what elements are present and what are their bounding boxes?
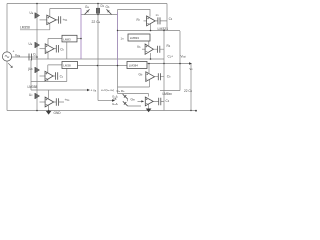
capacitor C5 bbox=[158, 46, 160, 53]
wire purple column left bbox=[80, 9, 82, 60]
diode D1 input TL bbox=[34, 13, 36, 19]
svg-text:1n: 1n bbox=[121, 37, 125, 41]
op-amp U4 mid-left lower bbox=[45, 71, 53, 81]
wire cell3 gnd drop bbox=[48, 106, 50, 111]
wire cell2b feedback bbox=[48, 65, 62, 73]
diode D2 input bbox=[34, 42, 36, 48]
svg-text:LM38: LM38 bbox=[63, 63, 71, 67]
wire RB1 drop bbox=[149, 80, 151, 87]
arrow vB bbox=[112, 99, 115, 102]
arrow va bbox=[87, 89, 90, 91]
svg-text:LM321: LM321 bbox=[158, 27, 169, 31]
wire TL output stub bbox=[56, 19, 58, 21]
wire input column bbox=[36, 4, 38, 111]
capacitor C3 bbox=[56, 45, 58, 53]
block B1 bbox=[62, 35, 77, 42]
wire cap column x164 bbox=[163, 31, 165, 111]
diode Db right bbox=[107, 9, 112, 14]
wire cell3 top link bbox=[48, 90, 50, 98]
diode Da left bbox=[85, 9, 90, 14]
wire purple column right bbox=[117, 12, 119, 66]
source V1 bbox=[2, 52, 11, 61]
diode D3 input bbox=[34, 67, 36, 73]
wire cell2a drop bbox=[47, 52, 49, 59]
op-amp U2 top-right bbox=[147, 16, 156, 26]
wire cell3 input link bbox=[40, 101, 46, 103]
wire RB1 output stub bbox=[155, 76, 165, 78]
svg-text:LM358: LM358 bbox=[20, 26, 30, 30]
block B2 bbox=[62, 62, 78, 69]
wire TR drop bbox=[150, 24, 152, 31]
wire diode chain links bbox=[123, 94, 142, 107]
wire vout bus bbox=[148, 63, 191, 65]
svg-text:LM358: LM358 bbox=[28, 85, 38, 89]
arrow source annotation bbox=[8, 63, 12, 67]
svg-text:CL+: CL+ bbox=[168, 55, 174, 59]
wire rung bottom right bbox=[118, 94, 149, 97]
svg-text:GND: GND bbox=[54, 111, 62, 115]
wire TL input link bbox=[40, 19, 47, 21]
op-amp U6 right lower bbox=[146, 72, 155, 82]
wire left border bbox=[6, 4, 8, 111]
diode D4 input bbox=[34, 93, 36, 99]
capacitor C2 TR output bbox=[158, 17, 160, 24]
wire cell2a feedback bbox=[48, 39, 81, 46]
block B4 bbox=[128, 34, 150, 41]
arrow vout bbox=[189, 62, 192, 65]
wire box B1 drop bbox=[66, 42, 68, 59]
wire cell3 output bbox=[54, 101, 64, 103]
wire cell2b input link bbox=[40, 75, 46, 77]
svg-text:LM83: LM83 bbox=[63, 37, 71, 41]
diode Dc bbox=[123, 94, 128, 99]
wire TR2 output stub bbox=[153, 48, 164, 50]
wire bottom border bbox=[7, 110, 197, 112]
wire TR feedback bbox=[118, 10, 151, 17]
op-amp U7 bottom-left bbox=[45, 97, 54, 107]
wire mid rail bbox=[31, 58, 164, 60]
wire RB1 top feed bbox=[148, 64, 150, 73]
svg-text:LM8xx: LM8xx bbox=[163, 92, 173, 96]
svg-text:LM833: LM833 bbox=[130, 36, 140, 40]
wire vB arrow line bbox=[98, 100, 112, 102]
wire left col2 bbox=[30, 59, 32, 90]
wire TR2 input stub bbox=[142, 48, 145, 50]
wire RB1 rail bbox=[118, 86, 150, 88]
wire cell3 rail bbox=[31, 89, 87, 91]
op-amp U5 right upper bbox=[145, 44, 153, 54]
ground G2 bbox=[146, 109, 152, 113]
block B3 bbox=[127, 62, 147, 69]
capacitor C6 bbox=[158, 73, 160, 80]
junction dots bbox=[36, 3, 38, 5]
ground G1 bbox=[46, 111, 52, 115]
wire RB2 gnd drop bbox=[148, 104, 150, 109]
wire rung top center bbox=[81, 14, 118, 16]
svg-text:vo=(va-vb): vo=(va-vb) bbox=[101, 88, 114, 92]
wire TR cap column bbox=[166, 4, 168, 31]
svg-text:22 Ca: 22 Ca bbox=[92, 20, 101, 24]
wire cell2b output stub bbox=[53, 75, 55, 77]
wire box B2 drop bbox=[66, 69, 68, 82]
wire cell2a output stub bbox=[54, 48, 56, 50]
wire source to column bbox=[12, 56, 38, 58]
capacitor C8 bbox=[159, 98, 161, 106]
wire mid bus bbox=[78, 65, 128, 67]
wire TR output stub bbox=[155, 20, 167, 22]
resistor R0 center top bbox=[96, 8, 99, 13]
wire top border bbox=[7, 3, 167, 5]
svg-text:GaΔ: GaΔ bbox=[112, 102, 118, 106]
diode Dd bbox=[123, 101, 128, 106]
wire right outer column bbox=[190, 64, 192, 111]
wire TR2 box link bbox=[148, 41, 150, 46]
capacitor C7 bbox=[56, 98, 58, 106]
wire center column bbox=[97, 4, 99, 101]
op-amp U3 mid-left upper bbox=[45, 44, 54, 54]
wire right edge column bbox=[160, 31, 180, 91]
capacitor C4 bbox=[56, 72, 58, 79]
wire TL feedback bbox=[50, 9, 81, 17]
wire RB2 input stub bbox=[138, 100, 142, 102]
wire cell2b rail bbox=[31, 81, 67, 83]
wire TR rail bbox=[118, 30, 181, 32]
wire TL bottom rail bbox=[20, 23, 50, 30]
capacitor Cin source series bbox=[29, 54, 32, 61]
wire right column upper bbox=[117, 10, 119, 94]
wire cell2b drop bbox=[47, 79, 49, 81]
arrow RB2 input bbox=[141, 100, 144, 102]
op-amp U8 bottom-right bbox=[145, 97, 153, 106]
capacitor C1 TL output bbox=[59, 16, 61, 23]
wire RB2 output stub bbox=[153, 100, 164, 102]
op-amp U1 top-left bbox=[47, 15, 56, 24]
svg-text:LM384: LM384 bbox=[129, 63, 139, 67]
wire TR input stub bbox=[144, 20, 147, 22]
wire TR2 drop bbox=[150, 53, 152, 59]
wire cell2a input link bbox=[40, 48, 46, 50]
